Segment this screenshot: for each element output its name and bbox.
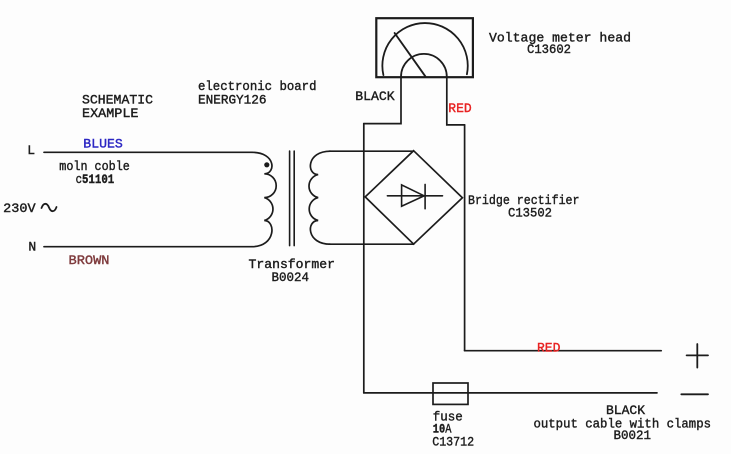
voltage meter head U1 dial arc <box>382 23 467 75</box>
wire: output negative BLACK <box>364 392 657 394</box>
transformer T1 core <box>290 151 295 246</box>
wire L (line) <box>44 151 252 153</box>
voltage meter head U1 coil loop arc <box>401 54 447 77</box>
svg-text:c51101: c51101 <box>76 172 115 187</box>
svg-text:L: L <box>27 143 35 158</box>
wire: output positive RED <box>465 350 662 352</box>
plus terminal symbol <box>687 344 708 368</box>
wire: negative rail vertical <box>363 124 365 393</box>
svg-text:BROWN: BROWN <box>69 253 110 268</box>
bridge rectifier D1 diode line <box>387 195 442 197</box>
transformer T1 secondary winding <box>309 151 330 244</box>
svg-text:RED: RED <box>537 341 561 356</box>
svg-text:C13502: C13502 <box>508 206 552 221</box>
fuse F1 body <box>433 383 468 404</box>
voltage meter head U1 needle <box>395 33 426 76</box>
svg-text:C13712: C13712 <box>432 434 474 449</box>
230V AC tilde symbol <box>42 204 57 211</box>
svg-text:230V: 230V <box>3 201 36 216</box>
bridge rectifier D1 diamond <box>365 151 462 244</box>
bridge rectifier D1 diode triangle <box>402 185 425 206</box>
svg-text:N: N <box>28 239 36 254</box>
svg-text:C13602: C13602 <box>527 42 571 57</box>
svg-text:BLUES: BLUES <box>83 137 123 152</box>
svg-text:B0024: B0024 <box>272 270 310 285</box>
wire: secondary top to bridge <box>329 150 414 152</box>
wire: positive rail vertical <box>464 125 466 351</box>
wire N (neutral) <box>44 246 252 248</box>
wire: meter RED lead <box>447 77 465 125</box>
transformer T1 primary winding <box>252 152 276 246</box>
svg-text:EXAMPLE: EXAMPLE <box>82 106 139 121</box>
voltage meter head U1 body <box>376 18 473 77</box>
bridge rectifier D1 diode cathode bar <box>424 184 426 208</box>
svg-text:ENERGY126: ENERGY126 <box>198 93 267 108</box>
wire: meter BLACK lead <box>364 77 401 124</box>
svg-text:B0021: B0021 <box>614 428 652 443</box>
svg-text:BLACK: BLACK <box>355 89 395 104</box>
svg-text:RED: RED <box>448 101 472 116</box>
transformer T1 phase dot <box>264 162 269 167</box>
minus terminal symbol <box>681 393 708 395</box>
wire: secondary bottom to bridge <box>329 243 414 245</box>
